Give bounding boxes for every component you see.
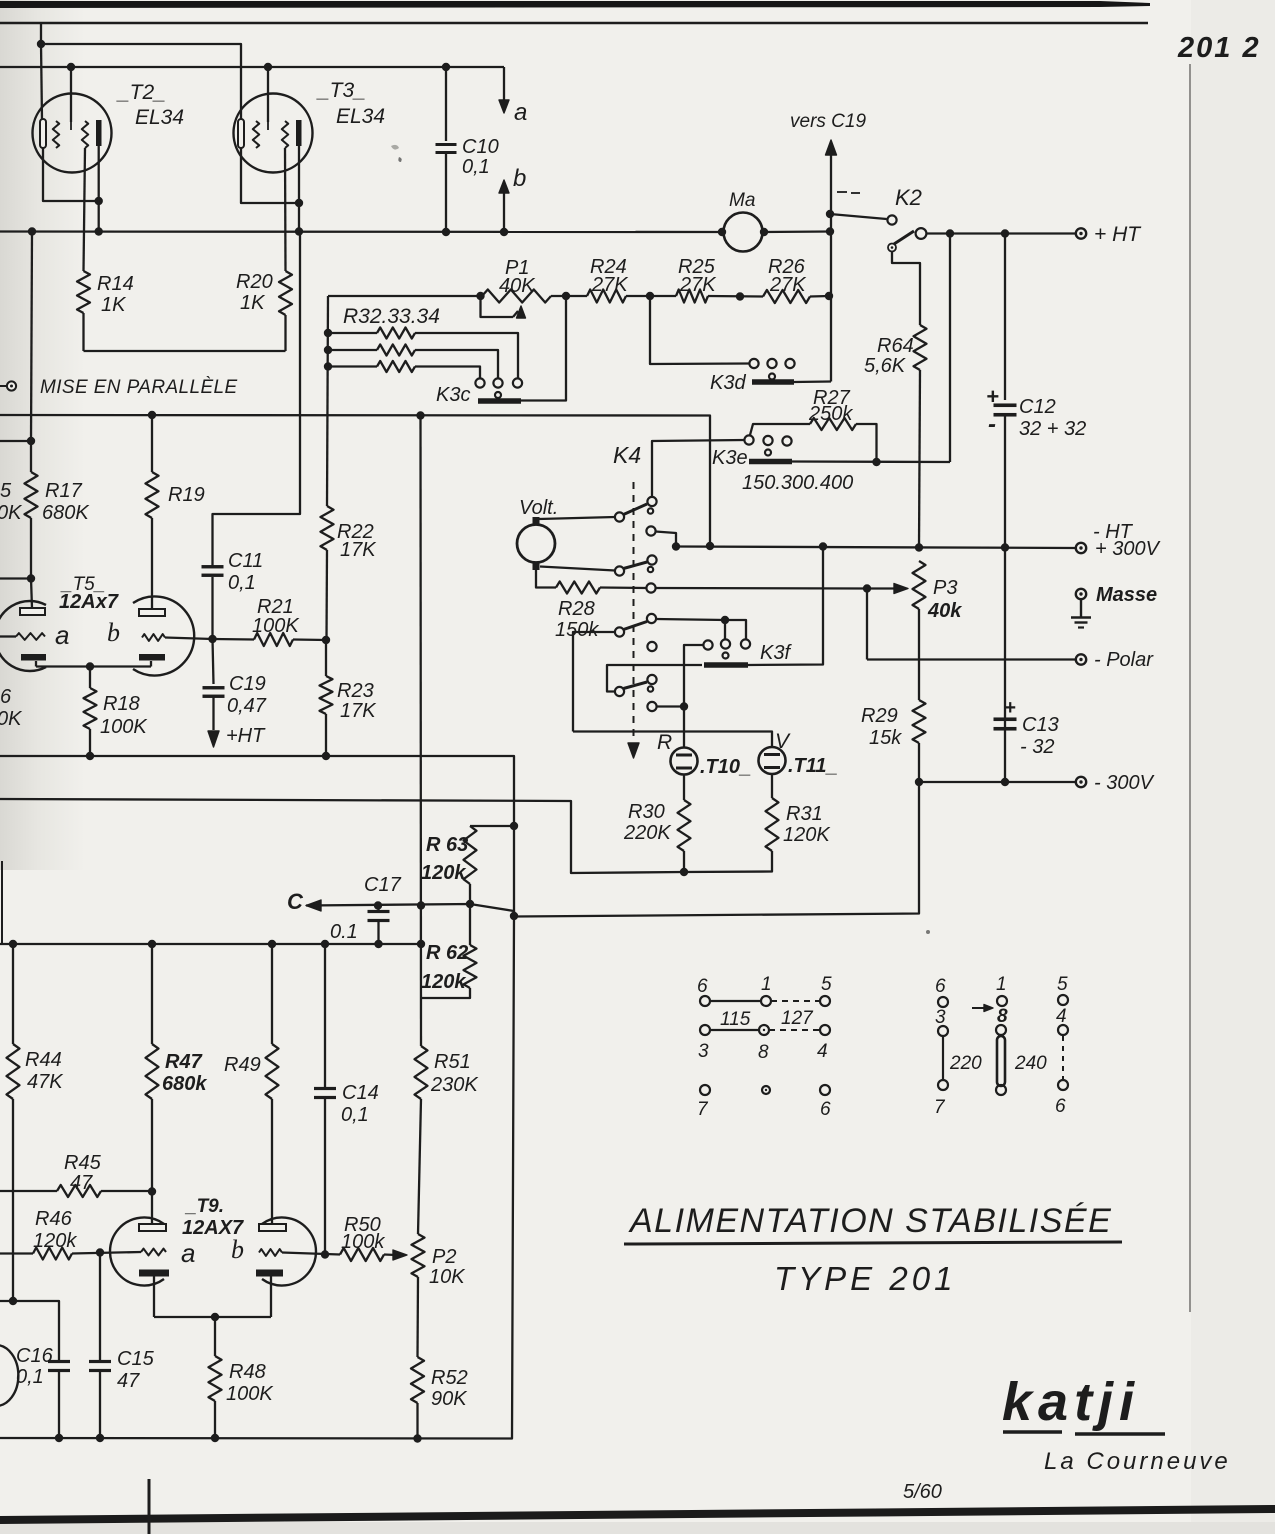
resistor R64 [914, 325, 927, 370]
svg-text:EL34: EL34 [336, 105, 385, 128]
svg-text:C15: C15 [117, 1348, 155, 1370]
svg-text:5: 5 [821, 974, 832, 995]
T5 grid-a zigzag [16, 633, 45, 640]
relay K3e contact 2 [763, 436, 772, 445]
svg-text:680K: 680K [42, 502, 90, 524]
pinout A pin4 [820, 1025, 830, 1035]
relay K3c contact 2 [493, 378, 502, 387]
svg-text:R51: R51 [434, 1051, 471, 1073]
resistor R23 [320, 676, 333, 714]
wire R32 right to K3c [415, 333, 518, 379]
-300V rail [919, 781, 1075, 783]
wire R44 drop [12, 944, 14, 1044]
svg-text:40K: 40K [499, 275, 536, 297]
tube T8 partial arc [0, 1345, 18, 1406]
svg-text:3: 3 [935, 1007, 946, 1028]
wire T11 bottom [771, 774, 773, 798]
capacitor C11 [202, 565, 224, 568]
K4 contact C7 [647, 675, 656, 684]
wire R45 left stub [0, 1190, 57, 1192]
capacitor C13 [994, 717, 1017, 721]
svg-text:47: 47 [70, 1172, 93, 1194]
resistor R27 [810, 418, 856, 430]
ground rail bottom [0, 917, 514, 1439]
resistor R30 [678, 800, 691, 851]
bottom rail y756 [0, 756, 514, 917]
resistor R62 [464, 945, 477, 988]
node C17 top [374, 901, 382, 909]
wire K3e bar east [792, 460, 950, 463]
svg-text:-: - [988, 411, 996, 438]
pinout A pin8 [759, 1025, 769, 1035]
K4 blade B2 [624, 562, 648, 569]
node R25-R26 [736, 292, 744, 300]
T3 plate bar [296, 120, 302, 146]
K4 contact C1 [647, 497, 656, 506]
wire C11 riser [211, 577, 213, 639]
node R32 left [324, 329, 332, 337]
node R18 bottom [86, 752, 94, 760]
wire R64 bottom to rail [919, 370, 920, 548]
wire K3f c1 to T10 riser [684, 645, 703, 748]
capacitor C17 [368, 910, 390, 913]
wire C5 to K3f [656, 619, 725, 620]
K3d bar [752, 379, 794, 385]
svg-text:K4: K4 [613, 442, 641, 468]
wire R49 drop [271, 944, 273, 1044]
T3 cathode bar [238, 119, 244, 148]
K4 pivot B3 [615, 627, 624, 636]
svg-text:201 2: 201 2 [1177, 32, 1261, 64]
node K3f riser top [819, 542, 827, 550]
svg-text:R52: R52 [431, 1367, 468, 1389]
meter Ma [724, 213, 763, 252]
node rail T3 [295, 227, 303, 235]
lower rail y800 [0, 799, 684, 873]
svg-text:90K: 90K [431, 1388, 468, 1410]
wire left stub y578 [0, 577, 31, 579]
relay K3c contact 3 [513, 378, 522, 387]
K2 blade [894, 231, 914, 244]
node T3 plate join [295, 199, 303, 207]
node K3f riser [721, 616, 729, 624]
svg-text:R28: R28 [558, 598, 595, 620]
wire to K2 fixed contact [830, 214, 887, 219]
wire C11 top jog to T3 plate line [213, 232, 301, 567]
svg-text:+: + [986, 384, 999, 409]
svg-text:C13: C13 [1022, 714, 1059, 736]
svg-text:1: 1 [996, 974, 1007, 995]
svg-text:5: 5 [0, 480, 12, 502]
wire R30 bottom [683, 851, 685, 872]
svg-text:12Ax7: 12Ax7 [59, 591, 119, 613]
svg-text:0,47: 0,47 [227, 695, 267, 717]
capacitor C19 [203, 686, 225, 689]
terminal -HT +300V [1076, 543, 1086, 553]
P3 wiper arrow [867, 587, 897, 589]
wire R21 left [213, 638, 255, 641]
svg-text:K3c: K3c [436, 384, 470, 406]
node R44 top [9, 940, 17, 948]
svg-text:6: 6 [1055, 1096, 1066, 1117]
node R24-R25 [646, 292, 654, 300]
arrow +HT down [208, 731, 219, 747]
pinout A link 3-8 [710, 1029, 759, 1031]
node T2 plate join [95, 197, 103, 205]
resistor R46 [33, 1248, 72, 1260]
svg-text:7: 7 [934, 1097, 946, 1118]
svg-text:R: R [657, 731, 672, 754]
svg-text:27K: 27K [591, 274, 629, 296]
meter Volt [517, 525, 555, 563]
node T3 grid feed [264, 63, 272, 71]
T5 cathode-b bar [139, 654, 165, 661]
K4 blade B3 [624, 622, 648, 630]
wire grid-a tail to edge [0, 635, 16, 637]
K3f small contact [723, 653, 729, 659]
wire R14 bottom [82, 313, 84, 351]
svg-text:1: 1 [761, 974, 772, 995]
T9 cathode drops [153, 1277, 155, 1318]
wire B3 west-south to T11 line [573, 632, 615, 732]
svg-text:0,1: 0,1 [341, 1104, 369, 1126]
wire main vertical to bottom jog [514, 782, 919, 917]
svg-text:150.300.400: 150.300.400 [742, 472, 853, 494]
pinout B col1 circles [938, 997, 948, 1007]
svg-text:15k: 15k [869, 727, 902, 749]
resistor R52 [411, 1357, 424, 1403]
svg-text:C11: C11 [228, 550, 263, 572]
T9 grid-b cap [259, 1224, 286, 1231]
T2 cathode bar [40, 119, 46, 148]
resistor R29 [913, 700, 926, 743]
svg-text:R19: R19 [168, 484, 205, 506]
svg-text:R20: R20 [236, 271, 273, 293]
svg-text:0,1: 0,1 [228, 572, 256, 594]
svg-text:5: 5 [1057, 974, 1068, 995]
svg-text:a: a [181, 1238, 195, 1268]
svg-text:230K: 230K [430, 1074, 479, 1096]
svg-text:0.1: 0.1 [330, 921, 358, 943]
svg-text:240: 240 [1014, 1053, 1047, 1074]
node rail T2 [95, 227, 103, 235]
wire K3d branch drop [650, 296, 750, 364]
K4 contact C3 [647, 555, 656, 564]
svg-text:- 300V: - 300V [1094, 772, 1155, 794]
wire R48 top [214, 1317, 216, 1356]
wire c line [306, 904, 514, 917]
K3d small contact [769, 374, 775, 380]
wire R31 bottom tie [684, 851, 772, 872]
node C15 gnd [96, 1434, 104, 1442]
wire to K3f c3 [725, 620, 746, 639]
K3e bar [749, 459, 792, 465]
svg-text:17K: 17K [340, 700, 377, 722]
tick marks [837, 191, 847, 193]
K4 blade B1 [624, 504, 648, 515]
node C15 tap [96, 1248, 104, 1256]
node cathode tie [86, 662, 94, 670]
svg-text:27K: 27K [679, 274, 717, 296]
wire C17 bottom [377, 921, 379, 944]
wire R27 left to K3e [750, 424, 810, 435]
T5 cathode-a drop [35, 661, 37, 667]
wire R20 bottom [284, 315, 286, 351]
wire R17 feed from rail [0, 440, 31, 442]
K2 pivot [888, 244, 896, 252]
wire T9 grid-b to R50 [282, 1253, 340, 1255]
resistor R20 [279, 271, 292, 315]
wire Ma to vers-C19 node [764, 230, 830, 233]
svg-text:127: 127 [781, 1008, 814, 1029]
pinout A link 6-1 [710, 1000, 761, 1002]
svg-text:100K: 100K [252, 615, 300, 637]
node y67 C10 [442, 63, 450, 71]
wire C12 drop [1004, 234, 1006, 401]
svg-text:R48: R48 [229, 1361, 266, 1383]
wire R18 top [89, 667, 91, 689]
resistor R49 [266, 1044, 279, 1099]
resistor R17 [25, 472, 38, 518]
pinout A pin7 [700, 1085, 710, 1095]
P1 wiper [481, 296, 514, 317]
wire stub from border to y44 rail [40, 23, 42, 44]
svg-text:C14: C14 [342, 1082, 379, 1104]
wire vers C19 vertical [830, 150, 832, 382]
svg-text:R47: R47 [165, 1051, 203, 1073]
svg-text:C16: C16 [16, 1345, 54, 1367]
pinout A pin3 [700, 1025, 710, 1035]
svg-text:220: 220 [949, 1053, 982, 1074]
pinout B col1 link [942, 1036, 944, 1080]
stabilizer tube T10 [671, 748, 698, 775]
svg-text:_T2_: _T2_ [116, 81, 166, 104]
node C17 bottom [374, 940, 382, 948]
wire to K3f c2 [724, 620, 726, 639]
wire R18 bottom [89, 729, 91, 756]
svg-text:vers C19: vers C19 [790, 111, 866, 132]
pinout B col3 circles [1058, 995, 1068, 1005]
logo underline 1 [1003, 1430, 1062, 1433]
node rail x919 [915, 543, 923, 551]
relay K3e contact 1 [744, 435, 753, 444]
wire R22 bottom [325, 550, 328, 640]
node R34 left [324, 362, 332, 370]
svg-text:b: b [107, 618, 120, 647]
resistor R26 [763, 290, 810, 303]
tube T9 envelope left lobe [110, 1218, 164, 1286]
svg-text:1K: 1K [240, 292, 266, 314]
wire C16 bottom [58, 1371, 60, 1438]
resistor R22 [321, 506, 334, 550]
K3c bar [478, 398, 521, 404]
node R19 top [148, 411, 156, 419]
terminal Masse [1076, 589, 1086, 599]
pinout A pin center [762, 1086, 770, 1094]
wire volt bottom drop [536, 570, 556, 588]
svg-text:47: 47 [117, 1370, 140, 1392]
K4 dashed axis [633, 482, 635, 742]
wire K2 pivot to R64 [892, 252, 920, 326]
svg-text:0K: 0K [0, 502, 23, 524]
wire T2 left-bar feed [41, 44, 42, 120]
svg-text:TYPE 201: TYPE 201 [774, 1260, 956, 1297]
wire R49 bottom [271, 1099, 273, 1224]
arrow vers C19 [826, 140, 837, 155]
K4 contact C7b [648, 686, 653, 691]
T3 grid feed inner [267, 122, 269, 130]
wire to T11 top [573, 732, 772, 748]
svg-text:5,6K: 5,6K [864, 355, 907, 377]
node R49 top [268, 940, 276, 948]
relay K3f contact 1 [703, 640, 712, 649]
resistor R18 [84, 688, 97, 729]
wire R23 top [325, 640, 327, 676]
capacitor C10 [436, 143, 457, 146]
wire C15 drop [99, 1253, 101, 1362]
svg-text:- 32: - 32 [1020, 736, 1054, 758]
T9 grid-b zigzag [259, 1249, 282, 1256]
node big vertical join [510, 912, 518, 920]
node rail left end [672, 542, 680, 550]
wire R17 to T5 grid-a cap [31, 579, 32, 609]
wire C14 bottom [324, 1098, 326, 1255]
node R47 top [148, 940, 156, 948]
wire row y296 from riser to P1 [328, 295, 482, 297]
wire P1-R24 [551, 295, 587, 297]
svg-text:1K: 1K [101, 294, 127, 316]
node junction at 41,44 [37, 40, 45, 48]
node R47-R45 [148, 1187, 156, 1195]
node rail x32 [28, 227, 36, 235]
resistor R63 [464, 826, 477, 884]
T9 grid-a cap [139, 1224, 166, 1231]
svg-text:27K: 27K [769, 274, 807, 296]
wire R45 right [101, 1190, 152, 1192]
wire R25-R26 [708, 295, 763, 298]
node rail end [417, 940, 425, 948]
svg-text:8: 8 [758, 1042, 769, 1063]
T5 cathode tie [36, 665, 151, 667]
T5 grid-b top cap [139, 609, 165, 616]
svg-text:Ma: Ma [729, 190, 755, 211]
T2 grid2 drop to R14 [84, 148, 86, 271]
pinout B arrow [972, 1007, 988, 1009]
wire R17 top [30, 441, 32, 472]
wire R19 top [151, 415, 153, 472]
wire R51 vertical [419, 416, 422, 1047]
T3 grid 2 [282, 121, 288, 148]
wire +HT drop x950 [949, 234, 951, 463]
svg-text:120k: 120k [421, 971, 466, 993]
pinout A pin6 [700, 996, 710, 1006]
svg-text:R45: R45 [64, 1152, 102, 1174]
main supply rail y232 [0, 230, 722, 233]
wire R48 bottom [214, 1401, 216, 1438]
svg-text:10K: 10K [429, 1266, 466, 1288]
wire y67 rail [0, 66, 504, 68]
svg-text:220K: 220K [623, 822, 672, 844]
node R51 feedback tap [417, 901, 425, 909]
svg-text:C19: C19 [229, 673, 266, 695]
wire C12-C13 vertical [1004, 548, 1006, 783]
svg-text:ALIMENTATION STABILISÉE: ALIMENTATION STABILISÉE [628, 1202, 1112, 1240]
K2 moving contact [916, 228, 927, 239]
capacitor C15 [89, 1360, 111, 1363]
T2 plate bottom wire [98, 146, 100, 232]
wire C16 branch [0, 1301, 59, 1361]
wire R24-R25 [626, 295, 676, 297]
capacitor C14 [314, 1087, 336, 1090]
svg-text:150k: 150k [555, 619, 599, 641]
logo underline 2 [1075, 1432, 1165, 1435]
K4 contact C1b [648, 508, 653, 513]
wire C12 bottom [1004, 415, 1006, 548]
svg-text:b: b [513, 165, 526, 192]
resistor R48 [209, 1356, 222, 1401]
wire K3c bar to P1 right [521, 296, 566, 401]
resistor R45 [57, 1185, 101, 1197]
svg-text:R29: R29 [861, 705, 898, 727]
wire volt-bottom to B2 [540, 567, 615, 571]
node T2 grid feed [67, 63, 75, 71]
node -300V x1005 [1001, 778, 1009, 786]
svg-text:R44: R44 [25, 1049, 62, 1071]
wire P2 to R52 [416, 1277, 419, 1357]
svg-text:EL34: EL34 [135, 106, 184, 129]
tube T5 envelope left lobe [0, 601, 46, 671]
tube T5 envelope right lobe [133, 596, 194, 675]
wire R62 bottom tie [421, 988, 470, 998]
svg-text:- Polar: - Polar [1094, 649, 1154, 671]
wire C2 to +300V rail [656, 532, 677, 547]
T9 grid-a zigzag [141, 1249, 166, 1256]
svg-text:3: 3 [698, 1041, 709, 1062]
potentiometer P2 [412, 1234, 425, 1277]
wire K4 top contact to K3e [652, 440, 745, 497]
node +HT x950 [946, 229, 954, 237]
pinout B col2 circles [997, 996, 1007, 1006]
resistor R25 [676, 290, 708, 303]
T3 grid2 drop to R20 [284, 148, 287, 271]
svg-text:+HT: +HT [226, 725, 266, 747]
arrow a drop [503, 67, 505, 101]
vacuum tube T2 envelope [33, 94, 112, 173]
wire R33 right to K3c [415, 350, 498, 379]
svg-text:4: 4 [1056, 1006, 1067, 1027]
svg-text:K3f: K3f [760, 642, 792, 664]
+300V rail [676, 547, 1075, 549]
T5 cathode-a bar [21, 654, 46, 661]
wire cathode tie R14-R20 [84, 350, 286, 352]
relay K3f contact 2 [721, 639, 730, 648]
node R52 gnd [413, 1434, 421, 1442]
relay K3d contact 3 [785, 359, 794, 368]
svg-text:R31: R31 [786, 803, 823, 825]
wire K3f bar to +300V rail riser [748, 547, 823, 666]
wire T10 bottom [683, 775, 685, 801]
R50 wiper arrow to P2 [384, 1253, 396, 1256]
wire R23 bottom [325, 714, 327, 756]
svg-text:120k: 120k [421, 862, 466, 884]
svg-text:K3d: K3d [710, 372, 746, 394]
node T10 feed [680, 702, 688, 710]
top border second line [0, 22, 1148, 25]
wire R51 to P2 [418, 1099, 421, 1234]
svg-text:6: 6 [0, 686, 12, 708]
stabilizer tube T11 [759, 747, 786, 774]
arrow b riser [503, 191, 505, 232]
